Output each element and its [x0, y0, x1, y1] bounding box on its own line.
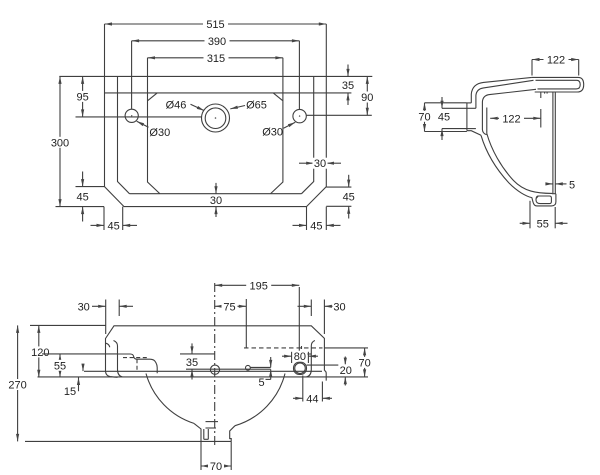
tap hole marks on shelf — [544, 92, 546, 94]
dim 95 — [75, 76, 91, 117]
tap hole right — [293, 109, 306, 122]
wall line outer — [552, 93, 554, 194]
dim 45 left vertical — [56, 172, 105, 222]
svg-text:122: 122 — [502, 113, 520, 125]
dim 70 right — [357, 348, 373, 377]
svg-text:45: 45 — [107, 220, 119, 232]
drain inner step left — [203, 429, 205, 439]
keyhole circle — [295, 363, 306, 374]
svg-text:55: 55 — [54, 360, 66, 372]
bowl arc left — [146, 374, 194, 424]
drain inner step bottom — [204, 438, 209, 440]
label D46 — [166, 99, 205, 111]
SIDE VIEW — [417, 54, 584, 230]
dim 122 middle — [490, 92, 541, 128]
foot slot — [536, 196, 551, 204]
svg-text:515: 515 — [206, 19, 224, 31]
extension line drain bottom — [25, 440, 201, 442]
hidden ledge dashes right — [244, 347, 323, 349]
slot hidden vertical — [301, 346, 303, 352]
dim 300 — [49, 76, 71, 206]
svg-text:95: 95 — [76, 91, 88, 103]
tap hole left — [125, 109, 138, 122]
rim step right — [297, 353, 311, 355]
inner bowl left edge — [148, 58, 160, 194]
svg-text:270: 270 — [8, 380, 26, 392]
rim step left — [118, 354, 158, 373]
rim mid outline right — [302, 76, 314, 193]
keyhole slot — [294, 362, 307, 375]
dim 120 — [29, 325, 51, 377]
dim 30 bottom center — [209, 183, 224, 217]
dim 30 top right — [298, 300, 346, 335]
dim 35 mid — [180, 343, 271, 379]
flange front edge — [466, 103, 468, 131]
dim 270 — [7, 325, 29, 441]
extension top left — [59, 75, 104, 77]
dim 30 wall right — [299, 158, 341, 171]
drain inner step right — [207, 429, 209, 439]
long line upper — [84, 370, 322, 372]
inner bowl front line — [486, 108, 488, 134]
svg-text:15: 15 — [64, 386, 76, 398]
dim 122 top — [532, 54, 579, 76]
top slope inner — [476, 80, 534, 108]
svg-text:Ø30: Ø30 — [149, 127, 170, 139]
inner bowl right top chamfer — [273, 93, 282, 101]
dim 30 top left — [78, 300, 133, 335]
svg-text:20: 20 — [340, 365, 352, 377]
FRONT VIEW — [49, 19, 375, 233]
dim 55 bottom — [520, 201, 568, 231]
inner bowl right edge — [271, 58, 283, 194]
svg-text:44: 44 — [306, 393, 318, 405]
flange inner bottom — [467, 128, 476, 130]
svg-text:Ø30: Ø30 — [262, 127, 283, 139]
dim 15 — [64, 364, 83, 398]
drain bottom — [201, 440, 231, 442]
drain left wall — [194, 423, 201, 441]
svg-text:45: 45 — [343, 192, 355, 204]
outline left lower curve — [106, 371, 118, 377]
svg-text:390: 390 — [208, 36, 226, 48]
dim 70 left — [417, 103, 467, 132]
svg-text:300: 300 — [51, 137, 69, 149]
drain inner detail mid — [206, 427, 217, 429]
svg-text:195: 195 — [250, 280, 268, 292]
svg-text:5: 5 — [569, 179, 575, 191]
dim 45 bottom right — [293, 207, 341, 233]
svg-text:45: 45 — [76, 192, 88, 204]
svg-text:45: 45 — [438, 111, 450, 123]
wall line inner — [554, 93, 556, 194]
svg-text:Ø46: Ø46 — [166, 99, 187, 111]
tap hole center marks — [131, 115, 132, 116]
rim inner left — [114, 341, 123, 378]
shelf inner — [536, 80, 581, 89]
svg-text:35: 35 — [342, 80, 354, 92]
flange bottom — [467, 131, 481, 136]
line 70 top extension — [324, 347, 368, 349]
svg-text:45: 45 — [310, 220, 322, 232]
dim 315 — [148, 52, 283, 65]
svg-text:120: 120 — [31, 347, 49, 359]
bowl arc right — [235, 374, 285, 426]
drain inner detail top — [206, 421, 219, 423]
outline top — [106, 326, 325, 372]
dim 195 — [215, 280, 300, 360]
svg-text:30: 30 — [314, 158, 326, 170]
svg-text:70: 70 — [418, 111, 430, 123]
dim 44 — [293, 376, 332, 406]
foot outline — [532, 194, 556, 206]
waste hole outer — [202, 104, 230, 132]
dim 45 left — [436, 97, 467, 140]
rim inner small step — [106, 343, 110, 347]
bowl outer curve — [481, 135, 532, 197]
dim 55 left — [42, 354, 118, 377]
extension ledge right — [326, 92, 351, 94]
centerline right — [306, 114, 372, 116]
centerline left — [76, 116, 202, 118]
dim 5 small hole — [258, 357, 270, 389]
dim 35 right — [342, 65, 354, 106]
dim 390 — [132, 35, 300, 109]
dim 75 — [215, 299, 247, 348]
waste hole inner — [205, 108, 226, 129]
rim inner right — [306, 341, 315, 378]
svg-text:122: 122 — [547, 55, 565, 67]
label D30 right — [262, 122, 295, 138]
svg-text:30: 30 — [333, 301, 345, 313]
rim mid outline left — [118, 76, 130, 193]
basin outer outline — [105, 76, 327, 206]
svg-text:35: 35 — [186, 357, 198, 369]
rim mid bottom line — [130, 193, 302, 195]
svg-text:30: 30 — [210, 195, 222, 207]
dim 70 drain — [201, 441, 231, 473]
line 20 top — [307, 364, 341, 366]
top slope outer — [471, 77, 532, 103]
svg-text:80: 80 — [294, 351, 306, 363]
svg-text:70: 70 — [210, 461, 222, 473]
top slope third — [482, 89, 536, 134]
flange step top — [467, 102, 471, 104]
overflow hole — [210, 365, 219, 374]
label D30 left — [137, 121, 170, 139]
small hole line — [250, 366, 270, 368]
waste hole center mark — [215, 117, 217, 119]
svg-text:Ø65: Ø65 — [246, 99, 267, 111]
outline right lower jog — [324, 371, 326, 381]
dim 80 slot — [282, 351, 318, 364]
label D65 — [230, 99, 267, 111]
dim 5 wall — [546, 179, 575, 191]
foot top edge — [552, 193, 556, 195]
foot slot notch — [536, 196, 538, 198]
shelf outer — [532, 77, 584, 92]
bowl inner curve — [487, 134, 552, 194]
ledge line — [105, 92, 327, 94]
dim 45 bottom left — [91, 207, 138, 233]
small fixing hole — [246, 365, 251, 370]
drain right wall — [230, 426, 235, 442]
inner bowl left top chamfer — [148, 93, 157, 101]
dim 20 — [338, 357, 353, 386]
dim 45 right vertical — [326, 175, 355, 219]
svg-text:55: 55 — [537, 218, 549, 230]
dim 515 — [105, 19, 327, 77]
SECTION VIEW (bottom) — [7, 280, 373, 473]
svg-text:70: 70 — [358, 357, 370, 369]
centerline — [214, 283, 216, 448]
extension top right — [326, 75, 372, 77]
extension line top edge left — [30, 324, 106, 326]
dim 90 right — [359, 76, 375, 115]
hidden overflow vertical — [136, 359, 138, 371]
svg-text:5: 5 — [258, 377, 264, 389]
long line lower — [38, 376, 369, 378]
svg-text:90: 90 — [361, 92, 373, 104]
hidden overflow dashes — [123, 357, 147, 359]
svg-text:30: 30 — [78, 301, 90, 313]
svg-text:315: 315 — [207, 53, 225, 65]
flange inner top — [467, 107, 476, 109]
svg-text:75: 75 — [223, 301, 235, 313]
